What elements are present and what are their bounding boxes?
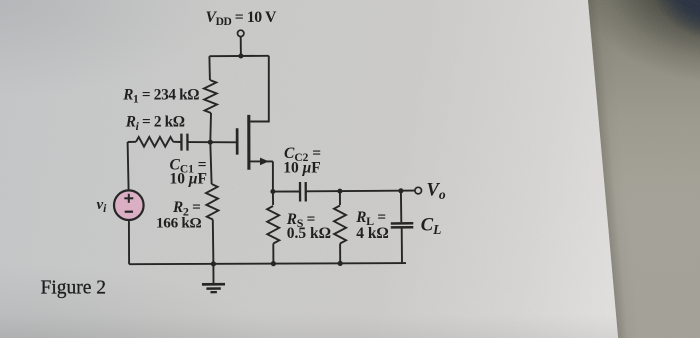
svg-text:Ri = 2 kΩ: Ri = 2 kΩ [125, 114, 185, 133]
resistor Ri [136, 137, 173, 147]
svg-text:Vo: Vo [427, 181, 446, 202]
svg-text:R1 = 234 kΩ: R1 = 234 kΩ [122, 86, 199, 105]
wire top rail [209, 55, 268, 57]
svg-text:vi: vi [97, 197, 108, 215]
wire RS from source node [272, 192, 274, 205]
wire input corner to Ri [128, 141, 136, 143]
svg-text:166 kΩ: 166 kΩ [156, 215, 202, 232]
ground [202, 264, 225, 292]
node VDD terminal [238, 30, 244, 36]
node Vo terminal [415, 187, 422, 194]
resistor R2 [206, 184, 218, 220]
wire bottom rail [129, 263, 406, 264]
wire source to output node [272, 161, 274, 191]
wire R2 from gate node [210, 142, 211, 184]
wire R1 to gate node [209, 113, 212, 142]
wire RL to bottom rail [339, 244, 341, 264]
wire CL from output line [400, 191, 402, 223]
svg-text:CL: CL [421, 216, 442, 237]
wire R2 to bottom rail [212, 220, 215, 264]
resistor RS [267, 206, 279, 244]
wire Ri to CC1 [173, 141, 180, 143]
node bottom rail junction at R2 [211, 261, 216, 266]
resistor RL [334, 206, 346, 244]
resistor R1 [204, 80, 217, 113]
svg-text:0.5 kΩ: 0.5 kΩ [287, 225, 331, 242]
node bottom rail junction at RL [338, 261, 343, 266]
transistor Q1 gate bar [236, 128, 239, 154]
wire source stub with arrow [250, 160, 273, 162]
node top rail junction [238, 54, 243, 59]
wire source node to CC2 [273, 191, 299, 193]
capacitor CL [391, 222, 414, 225]
source vi [114, 190, 144, 220]
wire drain stub [250, 56, 269, 122]
wire vi to bottom rail [128, 220, 130, 264]
wire CC1 to gate node [188, 141, 236, 143]
wire top rail to R1 [208, 56, 211, 80]
svg-text:VDD = 10 V: VDD = 10 V [206, 9, 277, 28]
node bottom rail junction at RS [271, 261, 276, 266]
node RL junction [337, 189, 342, 194]
wire RL from output line [339, 191, 341, 205]
wire vi to input corner [128, 142, 129, 190]
capacitor CC2 [299, 182, 301, 202]
svg-text:10 μF: 10 μF [170, 171, 207, 188]
transistor Q1 channel [247, 115, 250, 170]
svg-text:4 kΩ: 4 kΩ [356, 225, 389, 242]
node CL junction [398, 188, 403, 193]
wire VDD terminal to top rail [240, 37, 242, 56]
svg-text:10 μF: 10 μF [283, 160, 320, 177]
svg-text:Figure 2: Figure 2 [41, 277, 107, 298]
node gate junction [208, 140, 213, 145]
capacitor CC1 [180, 134, 182, 151]
wire CC2 to output [307, 190, 415, 193]
node source junction [270, 189, 275, 194]
wire CL to bottom rail [401, 228, 403, 263]
wire RS to bottom rail [272, 244, 274, 264]
